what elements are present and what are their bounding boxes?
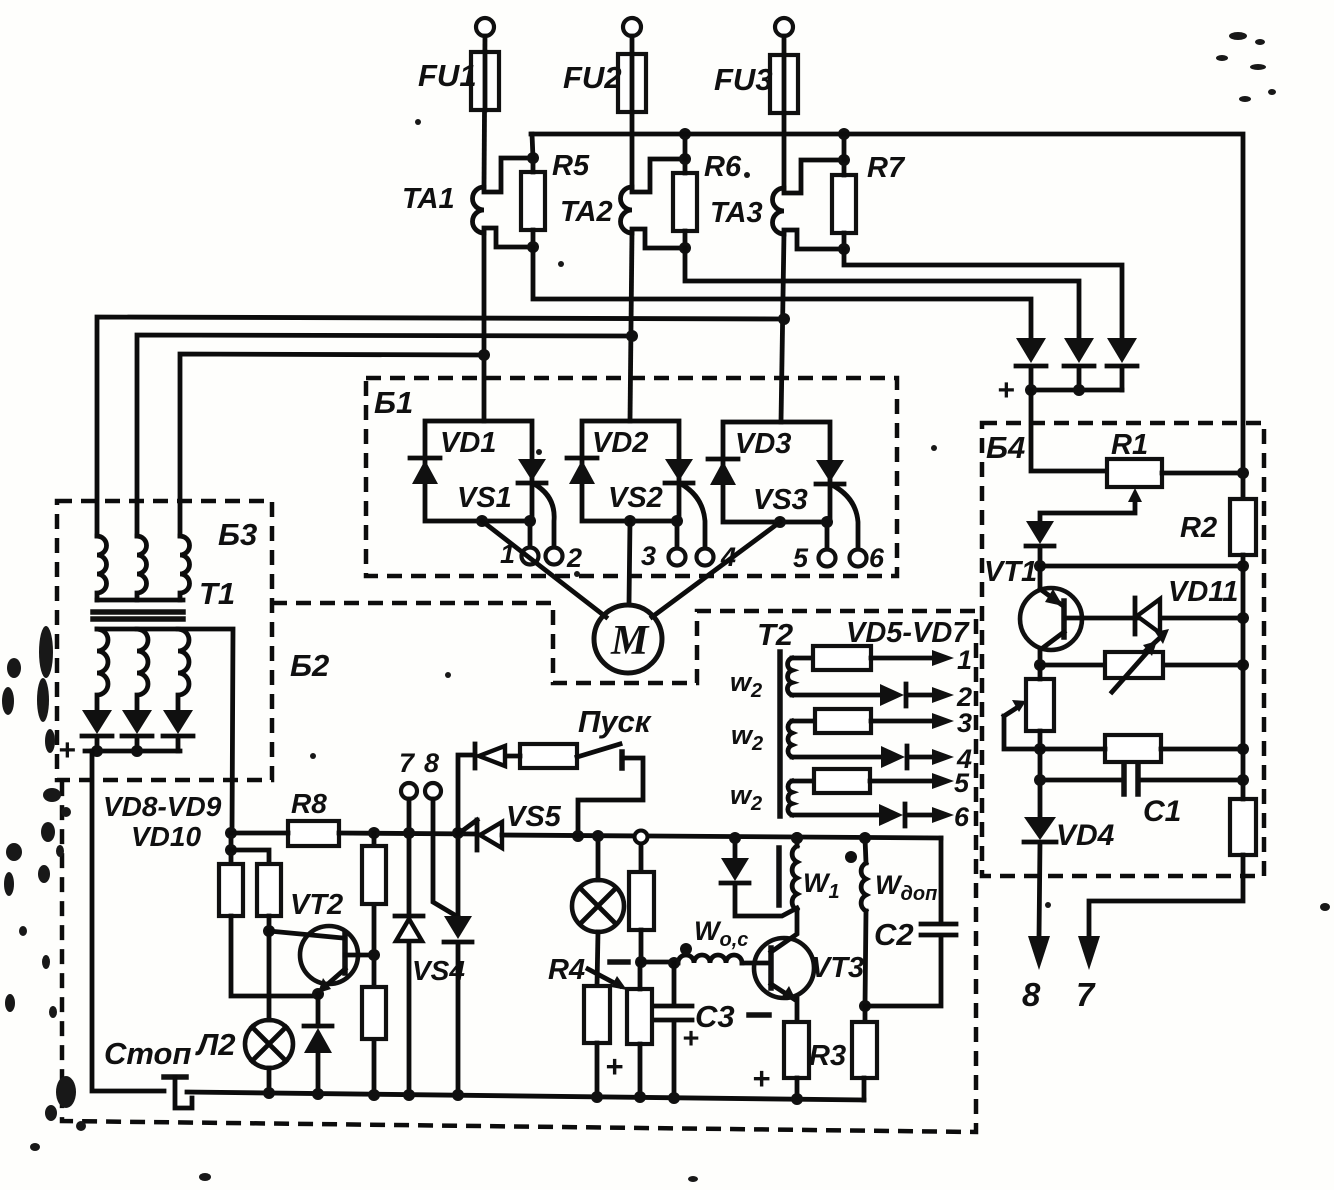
diode VD8 [82, 710, 112, 734]
svg-text:+: + [997, 374, 1015, 407]
node diode bus top [729, 832, 741, 844]
svg-text:6: 6 [954, 802, 970, 832]
node emitter right rail [1237, 560, 1249, 572]
transformer T2 core [777, 652, 783, 816]
svg-text:VD2: VD2 [592, 427, 648, 459]
svg-text:C3: C3 [695, 999, 735, 1034]
resistor rail B [257, 864, 281, 916]
wire output 8 arrow [1028, 936, 1050, 970]
terminal top phase B [623, 18, 641, 36]
wire left rail A lower [231, 916, 318, 996]
node tap phase A [478, 349, 490, 361]
wire TA1 secondary bottom bracket [484, 228, 533, 247]
diode pulse output 6 [792, 813, 879, 818]
resistor R4 upper [639, 836, 644, 872]
node diode bus [312, 1088, 324, 1100]
wire start loop riser [458, 755, 475, 833]
wire VS1 gate to terminal 2 [536, 485, 554, 547]
wire T1 common rail to R8 node (lower part) [229, 833, 234, 864]
wire terminal 1 lead [528, 521, 533, 547]
SECTION: block B3 rectifier supply [57, 501, 272, 852]
wire tap phase B to T1 [137, 335, 632, 536]
diode VD1 [410, 456, 440, 461]
wire phase C to B1 [781, 233, 784, 422]
wire branch to rail B [231, 850, 269, 864]
node branch lower [225, 844, 237, 856]
node R6 top [679, 153, 691, 165]
svg-text:7: 7 [399, 748, 416, 778]
pushbutton Stop [164, 1074, 186, 1080]
wire R5 riser to bus [532, 134, 533, 158]
node C3 bus [668, 1092, 680, 1104]
svg-text:R2: R2 [1180, 512, 1217, 544]
node R5 bottom [527, 241, 539, 253]
wire B2 bottom bus [187, 1092, 864, 1100]
wire VT2 base rail [372, 833, 377, 1095]
arrow output 1 [932, 650, 954, 666]
wire R6 output to rectifier diode 2 [685, 248, 1079, 338]
thyristor VS4 [395, 914, 423, 919]
svg-text:VD3: VD3 [735, 428, 791, 460]
wire right rail through B4 [1089, 555, 1243, 938]
module VD2/VS2 box [582, 421, 679, 521]
svg-text:5: 5 [954, 768, 970, 798]
node module2 bottom right [671, 515, 683, 527]
terminal circle 2 [546, 548, 563, 565]
terminal top phase A [476, 18, 494, 36]
terminal circle 1 [522, 548, 539, 565]
svg-text:R6: R6 [704, 151, 742, 183]
wire R8 line [231, 833, 477, 834]
polarity dot Wos [680, 943, 692, 955]
transformer T1 primary winding 1 [97, 536, 107, 600]
wire phase C vertical [782, 36, 787, 189]
wire start loop return [578, 758, 643, 836]
winding w2-2 [788, 721, 792, 757]
diode VD4 [1024, 817, 1056, 840]
resistor pulse output 5 [792, 779, 814, 784]
wire emitter node down [316, 994, 321, 1026]
diode VD3 [708, 457, 738, 462]
wire rail B lower [267, 916, 272, 931]
block boundary B1 [366, 378, 897, 576]
svg-text:VS3: VS3 [753, 484, 808, 516]
svg-text:VS2: VS2 [608, 482, 663, 514]
node collector right rail [1237, 659, 1249, 671]
node R1 right rail [1237, 467, 1249, 479]
node VT1 collector [1034, 659, 1046, 671]
svg-text:5: 5 [793, 543, 809, 573]
resistor R3 [863, 1006, 868, 1022]
svg-text:R3: R3 [809, 1040, 846, 1072]
thyristor VS1 [518, 459, 546, 481]
potentiometer R1 [1107, 459, 1162, 487]
resistor R4 lower [627, 989, 652, 1044]
polarity dot W1 [845, 851, 857, 863]
winding w2-1 [787, 658, 792, 695]
svg-text:VT1: VT1 [984, 556, 1037, 588]
wire terminal 7 rail [407, 799, 412, 916]
node R4 rail bus [634, 1091, 646, 1103]
svg-text:3: 3 [957, 708, 972, 738]
svg-text:Б1: Б1 [374, 385, 413, 420]
resistor lower line B4 [1105, 735, 1161, 762]
node VT2 collector [263, 925, 275, 937]
wire TA2 secondary bottom bracket [632, 229, 685, 248]
svg-text:+: + [752, 1061, 770, 1096]
node lamp bus [263, 1087, 275, 1099]
fuse FU3 [770, 55, 798, 113]
terminal top phase C [775, 18, 793, 36]
resistor R7 [832, 175, 856, 233]
node lamp rail bus [591, 1091, 603, 1103]
wire lower resistor line [1040, 747, 1243, 752]
svg-text:8: 8 [1022, 976, 1041, 1013]
node motor lead module2 [624, 515, 636, 527]
resistor R5 [521, 172, 545, 230]
arrow output 3 [932, 713, 954, 729]
svg-text:+: + [605, 1049, 623, 1084]
winding Wos feedback [641, 960, 678, 965]
resistor bottom right B4 [1230, 799, 1256, 855]
svg-text:8: 8 [424, 748, 439, 778]
wire phase B to B1 [630, 232, 632, 421]
capacitor C3 [656, 963, 692, 1098]
diode phase C rectifier [1107, 338, 1137, 363]
svg-text:FU2: FU2 [563, 60, 622, 95]
transformer T1 primary winding 2 [137, 536, 147, 600]
node R6 bottom [679, 242, 691, 254]
transformer TA3 winding [773, 188, 785, 234]
node base [368, 949, 380, 961]
wire R1 right lead [1162, 471, 1243, 476]
svg-text:2: 2 [566, 543, 582, 573]
winding Wdop [865, 838, 866, 863]
svg-text:TA1: TA1 [402, 183, 455, 215]
module VD3/VS3 box [723, 422, 830, 522]
wire tap phase A to T1 [180, 354, 484, 536]
transformer T1 secondary winding 1 [97, 629, 108, 710]
block boundary B3 [57, 501, 272, 780]
capacitor C1 [1040, 778, 1243, 783]
node lamp top [592, 830, 604, 842]
SECTION: block B4 regulator [982, 423, 1264, 1013]
wire VD8-VD10 cathode bus [85, 749, 180, 754]
wire VS3 gate to terminal 6 [834, 486, 858, 549]
wire R5 output to rectifier diode 1 [533, 247, 1031, 338]
svg-text:FU1: FU1 [418, 58, 477, 93]
svg-text:R1: R1 [1111, 429, 1148, 461]
node W1 bus [791, 832, 803, 844]
wire VS5 gate [458, 820, 477, 834]
svg-text:R8: R8 [291, 788, 327, 819]
transistor VT2 [300, 926, 358, 984]
capacitor C2 [865, 838, 956, 1006]
wire TA3 secondary top bracket [784, 160, 844, 193]
node VD8 bus [91, 745, 103, 757]
svg-text:Б4: Б4 [986, 430, 1025, 465]
node Wdop C2 junction [859, 1000, 871, 1012]
diode W1 shunt [733, 838, 738, 858]
block boundary B4 [982, 423, 1264, 876]
thyristor VS2 [665, 459, 693, 481]
SECTION: motor [594, 605, 662, 673]
SECTION: rectifier diodes top right [997, 338, 1137, 471]
svg-text:+: + [58, 734, 76, 767]
diode phase B rectifier [1064, 338, 1094, 363]
svg-text:7: 7 [1076, 976, 1096, 1013]
node Wos tap [635, 956, 647, 968]
svg-text:6: 6 [869, 543, 885, 573]
svg-text:VD4: VD4 [1056, 819, 1115, 852]
potentiometer lower left B4 [1026, 679, 1054, 731]
svg-text:T2: T2 [757, 617, 793, 652]
node R4 rail top ring [635, 831, 648, 844]
svg-text:VT2: VT2 [290, 889, 343, 921]
node Wdop bus [859, 832, 871, 844]
wire TA1 secondary top bracket [484, 158, 533, 192]
node module3 bottom right [821, 516, 833, 528]
transformer T1 secondary winding 3 [178, 629, 189, 710]
node R6 bus junction [679, 128, 691, 140]
node R5 top [527, 152, 539, 164]
transformer TA1 winding [473, 187, 485, 233]
svg-text:Б3: Б3 [218, 517, 257, 552]
node VD9 bus [131, 745, 143, 757]
svg-text:VT3: VT3 [811, 952, 864, 984]
fuse FU2 [618, 54, 646, 112]
node VT2 emitter [312, 988, 324, 1000]
thyristor VS3 [816, 460, 844, 482]
svg-text:VD1: VD1 [440, 427, 496, 459]
wire R7 output to rectifier diode 3 [844, 249, 1122, 338]
node base right rail [1237, 612, 1249, 624]
wire phase A vertical [484, 36, 485, 188]
svg-text:FU3: FU3 [714, 62, 773, 97]
terminal circle 7 [401, 783, 417, 799]
resistor under lamp [584, 986, 610, 1043]
winding W1 primary [795, 838, 800, 846]
node wiper return [1034, 743, 1046, 755]
diode by VS4 [456, 833, 461, 917]
node rectifier bus [1073, 384, 1085, 396]
arrow output 2 [932, 687, 954, 703]
wire output 7 arrow [1078, 936, 1100, 970]
svg-text:C1: C1 [1143, 795, 1181, 828]
wire R4 wiper arrow [588, 969, 620, 986]
diode emitter shunt [304, 1024, 332, 1029]
wire module3 to motor [652, 522, 780, 617]
node start loop bus [572, 830, 584, 842]
wire terminal 3 lead [675, 521, 680, 548]
label minus C3 node [610, 959, 628, 965]
motor M [594, 605, 662, 673]
wire T1 secondary common bus to R8 node [97, 629, 233, 833]
wire R6 riser to bus [683, 134, 688, 159]
label minus VT3 emitter [749, 1012, 769, 1018]
resistor pulse output 1 [792, 656, 813, 661]
terminal circle 6 [850, 550, 867, 567]
wire module2 to motor [629, 521, 630, 604]
node R8 right [368, 827, 380, 839]
resistor base rail lower [362, 987, 386, 1039]
diode VD9 [122, 710, 152, 734]
svg-text:R7: R7 [867, 152, 906, 184]
node R7 top [838, 154, 850, 166]
core T1 [93, 612, 183, 619]
resistor R8 [288, 821, 339, 846]
wire R1 wiper [1040, 498, 1135, 521]
node R7 bus junction [838, 128, 850, 140]
transistor VT3 [754, 938, 814, 998]
diode VD11 [1133, 598, 1138, 634]
node VS4 bus [403, 1089, 415, 1101]
svg-text:VD8-VD9: VD8-VD9 [103, 791, 222, 822]
svg-text:VS5: VS5 [506, 801, 562, 833]
svg-text:Л2: Л2 [195, 1027, 236, 1062]
winding w2-3 [788, 781, 792, 815]
wire VS2 gate to terminal 4 [683, 485, 705, 548]
resistor VT3 emitter [784, 1022, 809, 1078]
node module1 bottom [524, 515, 536, 527]
lamp L1 [596, 836, 601, 880]
wire phase B vertical [630, 36, 635, 188]
diode pulse output 4 [792, 755, 881, 760]
diode VD10 [163, 710, 193, 734]
resistor R2 [1230, 499, 1256, 555]
arrow output 5 [932, 773, 954, 789]
wire phase A to B1 [482, 232, 487, 421]
wire potentiometer wiper return [1004, 707, 1040, 749]
node motor lead module3 [774, 516, 786, 528]
node C3 branch [668, 957, 680, 969]
switch Start blade [577, 744, 620, 757]
node main bus VS5 line dots [791, 832, 803, 844]
svg-text:M: M [610, 618, 650, 664]
wire collector line [1040, 663, 1243, 668]
svg-text:1: 1 [957, 645, 972, 675]
svg-text:TA3: TA3 [710, 197, 763, 229]
thyristor VS5 [475, 820, 480, 850]
node C1 left [1034, 774, 1046, 786]
svg-text:Б2: Б2 [290, 648, 329, 683]
svg-text:3: 3 [641, 541, 656, 571]
node C1 right rail [1237, 774, 1249, 786]
diode VD2 [567, 456, 597, 461]
block boundary B2 [62, 603, 976, 1132]
wire B3 plus rail down to stop button [92, 751, 164, 1091]
svg-text:VS1: VS1 [457, 482, 512, 514]
wire rectifier plus bus [1031, 388, 1122, 393]
variable resistor on collector line [1105, 652, 1163, 678]
diode phase A rectifier [1016, 338, 1046, 363]
node lower line right rail [1237, 743, 1249, 755]
transformer TA2 winding [621, 187, 633, 233]
svg-text:Пуск: Пуск [578, 704, 652, 739]
wire emitter line to R2 [1040, 564, 1243, 569]
node R8 left [225, 827, 237, 839]
core T2 primary [776, 848, 782, 905]
diode start loop [473, 744, 478, 768]
node base rail bus [368, 1089, 380, 1101]
wire terminal 5 lead [825, 522, 830, 549]
node diode top R8 line [452, 827, 464, 839]
svg-text:T1: T1 [199, 576, 235, 611]
svg-text:+: + [682, 1023, 699, 1055]
transistor VT1 [1038, 566, 1043, 589]
wire TA3 secondary bottom bracket [784, 230, 844, 249]
node tap phase C [778, 313, 790, 325]
wire rectifier output into B4 [1031, 390, 1107, 471]
transformer T1 secondary winding 2 [137, 629, 148, 710]
terminal circle 3 [669, 549, 686, 566]
wire TA2 secondary top bracket [632, 159, 685, 192]
resistor start loop [520, 744, 577, 768]
arrow output 6 [932, 807, 954, 823]
node VT1 emitter [1034, 560, 1046, 572]
resistor left rail A [219, 864, 243, 916]
wire tap phase C to T1 [97, 317, 784, 536]
SECTION: block B2 control unit [62, 603, 976, 1132]
terminal circle 8 [425, 783, 441, 799]
svg-text:VD11: VD11 [1168, 576, 1238, 608]
svg-text:VD10: VD10 [131, 821, 201, 852]
node rectifier bus left [1025, 384, 1037, 396]
wire top bus to B4 [531, 134, 1243, 499]
svg-text:R4: R4 [548, 954, 585, 986]
terminal circle 4 [697, 549, 714, 566]
node emitter resistor bus [791, 1093, 803, 1105]
wire T1 primary star bus [97, 598, 183, 603]
svg-text:R5: R5 [552, 150, 590, 182]
diode B4 emitter feed [1026, 521, 1054, 544]
wire terminal 8 rail [433, 799, 458, 917]
node motor lead module1 [476, 515, 488, 527]
fuse FU1 [471, 52, 499, 110]
arrow output 4 [932, 749, 954, 765]
lamp L2 [267, 931, 272, 1020]
resistor R6 [673, 173, 697, 231]
svg-text:C2: C2 [874, 917, 914, 952]
module VD1/VS1 box [425, 421, 532, 521]
node tap phase B [626, 330, 638, 342]
terminal circle 5 [819, 550, 836, 567]
wire R7 riser to bus [842, 134, 847, 160]
transformer T1 primary winding 3 [180, 536, 190, 600]
SECTION: top three-phase input [97, 18, 1243, 536]
svg-text:Стоп: Стоп [104, 1036, 191, 1071]
node diode bus [452, 1089, 464, 1101]
diode pulse output 2 [792, 693, 880, 698]
SECTION: block B1 power modules [366, 378, 897, 617]
resistor base rail upper [362, 846, 386, 904]
node terminal 7 R8 line [403, 827, 415, 839]
node R7 bottom [838, 243, 850, 255]
wire R4 rail middle [639, 930, 644, 962]
wire module1 to motor [482, 521, 606, 617]
svg-text:TA2: TA2 [560, 196, 613, 228]
wire main gate bus [502, 835, 941, 838]
resistor pulse output 3 [792, 719, 815, 724]
wire VT1 base line [1066, 616, 1243, 621]
